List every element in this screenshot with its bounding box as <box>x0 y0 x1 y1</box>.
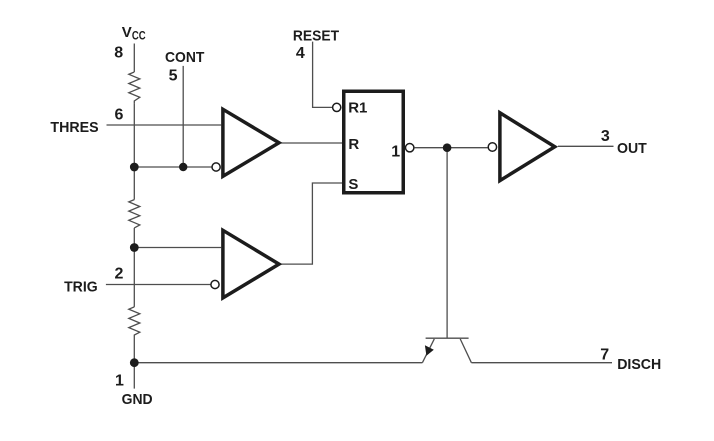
svg-text:6: 6 <box>115 106 124 123</box>
svg-text:S: S <box>348 176 358 193</box>
svg-text:R1: R1 <box>348 99 367 116</box>
svg-text:4: 4 <box>296 45 305 62</box>
svg-text:TRIG: TRIG <box>64 279 98 296</box>
svg-text:THRES: THRES <box>50 119 98 136</box>
svg-text:GND: GND <box>122 391 153 408</box>
svg-text:8: 8 <box>114 45 123 62</box>
svg-text:CONT: CONT <box>165 49 204 66</box>
svg-text:R: R <box>348 136 359 153</box>
svg-text:DISCH: DISCH <box>617 356 661 373</box>
svg-text:1: 1 <box>115 372 124 389</box>
svg-text:7: 7 <box>600 347 609 364</box>
svg-text:5: 5 <box>169 67 178 84</box>
svg-text:3: 3 <box>601 128 610 145</box>
svg-text:OUT: OUT <box>617 140 647 157</box>
svg-text:2: 2 <box>115 266 124 283</box>
svg-text:RESET: RESET <box>293 27 339 44</box>
svg-text:1: 1 <box>391 143 400 160</box>
